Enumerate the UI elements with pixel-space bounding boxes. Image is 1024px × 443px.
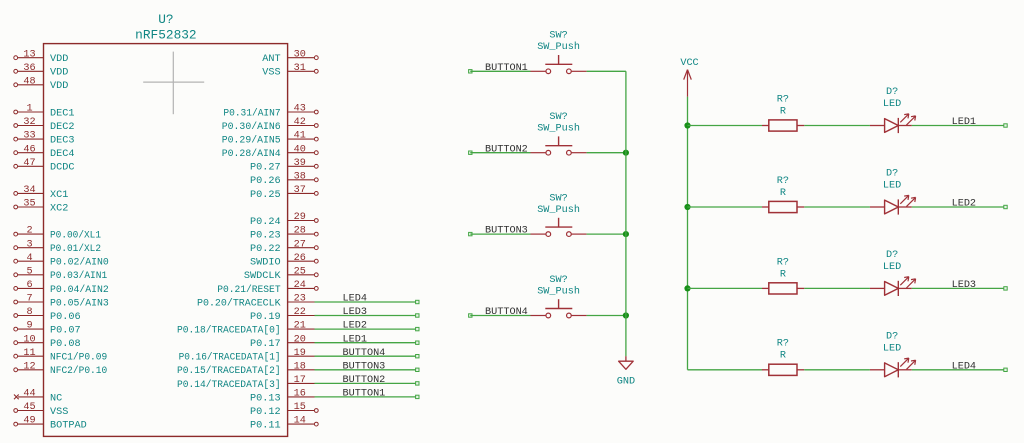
wire BUTTON2 left segment: [469, 151, 531, 154]
svg-text:R: R: [780, 106, 786, 117]
svg-text:19: 19: [294, 348, 306, 359]
svg-text:R?: R?: [777, 176, 789, 187]
svg-text:VDD: VDD: [50, 81, 68, 92]
power VCC: [680, 58, 698, 97]
svg-text:NC: NC: [50, 393, 62, 404]
svg-text:28: 28: [294, 226, 306, 237]
wire net BUTTON1 at pin 16: [315, 395, 420, 398]
svg-text:DEC1: DEC1: [50, 108, 74, 119]
svg-text:LED: LED: [883, 262, 901, 273]
wire net LED3: [912, 287, 1007, 290]
pin 45 VSS: [14, 402, 69, 418]
svg-text:38: 38: [294, 171, 306, 182]
pin 20 P0.17: [250, 334, 314, 350]
svg-text:BUTTON3: BUTTON3: [485, 226, 528, 237]
pin 17 P0.14/TRACEDATA[3]: [177, 375, 315, 391]
pin 6 P0.04/AIN2: [14, 280, 109, 296]
svg-text:R: R: [780, 188, 786, 199]
resistor R3: [762, 257, 804, 294]
LED D3: [870, 250, 916, 296]
svg-text:BUTTON4: BUTTON4: [343, 348, 386, 359]
svg-text:6: 6: [26, 280, 32, 291]
pin 34 XC1: [14, 185, 69, 201]
svg-text:1: 1: [26, 104, 32, 115]
pin 14 P0.11: [250, 416, 318, 432]
svg-text:LED: LED: [883, 181, 901, 192]
LED D1: [870, 87, 916, 133]
svg-text:2: 2: [26, 226, 32, 237]
wire net LED4: [912, 368, 1007, 371]
svg-text:25: 25: [294, 266, 306, 277]
wire net BUTTON4 at pin 19: [315, 355, 420, 358]
svg-text:P0.07: P0.07: [50, 326, 81, 337]
svg-text:BUTTON2: BUTTON2: [343, 375, 386, 386]
resistor R1: [762, 94, 804, 131]
svg-text:29: 29: [294, 212, 306, 223]
pin 39 P0.27: [250, 158, 318, 174]
svg-text:49: 49: [23, 416, 35, 427]
svg-text:VDD: VDD: [50, 68, 68, 79]
pin 12 NFC2/P0.10: [14, 361, 107, 377]
pin 38 P0.26: [250, 171, 318, 187]
svg-text:U?: U?: [158, 12, 173, 27]
pin 10 P0.08: [14, 334, 81, 350]
svg-text:P0.25: P0.25: [250, 190, 281, 201]
pin 44 NC: [14, 389, 62, 405]
svg-text:P0.17: P0.17: [250, 339, 281, 350]
svg-text:30: 30: [294, 49, 306, 60]
svg-text:P0.00/XL1: P0.00/XL1: [50, 230, 101, 242]
svg-text:45: 45: [23, 402, 35, 413]
pin 8 P0.06: [14, 307, 81, 323]
pin 47 DCDC: [14, 158, 75, 174]
svg-text:46: 46: [23, 144, 35, 155]
wire BUTTON2 to bus: [587, 152, 626, 154]
svg-text:3: 3: [26, 239, 32, 250]
svg-text:39: 39: [294, 158, 306, 169]
switch SW4 SW_Push: [531, 275, 587, 318]
wire net LED2 at pin 21: [315, 327, 420, 330]
wire VCC to R3: [688, 287, 763, 289]
pin 3 P0.01/XL2: [14, 239, 101, 255]
svg-text:22: 22: [294, 307, 306, 318]
pin 7 P0.05/AIN3: [14, 294, 109, 310]
svg-text:P0.05/AIN3: P0.05/AIN3: [50, 297, 109, 309]
svg-text:SWDCLK: SWDCLK: [244, 271, 282, 282]
svg-text:34: 34: [23, 185, 35, 196]
svg-text:4: 4: [26, 253, 32, 264]
svg-text:BUTTON2: BUTTON2: [485, 144, 528, 155]
svg-text:10: 10: [23, 334, 35, 345]
svg-text:BUTTON3: BUTTON3: [343, 361, 386, 372]
junction at bus row BUTTON2: [623, 150, 629, 156]
pin 48 VDD: [14, 76, 69, 92]
pin 11 NFC1/P0.09: [14, 348, 107, 364]
svg-text:LED: LED: [883, 99, 901, 110]
svg-text:P0.01/XL2: P0.01/XL2: [50, 243, 101, 255]
pin 16 P0.13: [250, 389, 314, 405]
svg-text:P0.11: P0.11: [250, 421, 281, 432]
svg-text:SW?: SW?: [549, 112, 567, 123]
svg-text:LED4: LED4: [343, 294, 367, 305]
pin 23 P0.20/TRACECLK: [197, 294, 315, 310]
svg-text:SW?: SW?: [549, 194, 567, 205]
pin 49 BOTPAD: [14, 416, 87, 432]
svg-text:37: 37: [294, 185, 306, 196]
svg-text:SW?: SW?: [549, 275, 567, 286]
wire BUTTON4 to bus: [587, 315, 626, 317]
svg-text:R: R: [780, 351, 786, 362]
svg-text:9: 9: [26, 321, 32, 332]
wire R3 to D3: [804, 287, 870, 289]
svg-text:SWDIO: SWDIO: [250, 258, 281, 269]
wire BUTTON4 left segment: [469, 314, 531, 317]
svg-text:36: 36: [23, 63, 35, 74]
junction at VCC bus row LED3: [684, 285, 690, 291]
svg-text:20: 20: [294, 334, 306, 345]
svg-text:LED: LED: [883, 344, 901, 355]
svg-text:LED1: LED1: [343, 334, 367, 345]
svg-text:BUTTON4: BUTTON4: [485, 307, 528, 318]
junction at VCC bus row LED2: [684, 204, 690, 210]
svg-text:P0.29/AIN5: P0.29/AIN5: [222, 135, 281, 147]
svg-text:P0.13: P0.13: [250, 393, 281, 404]
svg-text:R?: R?: [777, 94, 789, 105]
resistor R2: [762, 176, 804, 213]
pin 25 SWDCLK: [244, 266, 318, 282]
pin 42 P0.30/AIN6: [222, 117, 318, 133]
svg-text:48: 48: [23, 76, 35, 87]
svg-text:35: 35: [23, 199, 35, 210]
wire BUTTON3 left segment: [469, 232, 531, 235]
svg-text:P0.15/TRACEDATA[2]: P0.15/TRACEDATA[2]: [177, 365, 281, 377]
svg-text:LED3: LED3: [343, 307, 367, 318]
svg-text:P0.02/AIN0: P0.02/AIN0: [50, 257, 109, 269]
pin 29 P0.24: [250, 212, 318, 228]
svg-text:44: 44: [23, 389, 35, 400]
svg-text:P0.14/TRACEDATA[3]: P0.14/TRACEDATA[3]: [177, 379, 281, 391]
svg-text:15: 15: [294, 402, 306, 413]
svg-text:40: 40: [294, 144, 306, 155]
svg-text:DCDC: DCDC: [50, 163, 74, 174]
wire net LED4 at pin 23: [315, 300, 420, 303]
svg-text:5: 5: [26, 266, 32, 277]
svg-text:BOTPAD: BOTPAD: [50, 421, 87, 432]
wire net LED3 at pin 22: [315, 314, 420, 317]
pin 40 P0.28/AIN4: [222, 144, 318, 160]
svg-text:SW_Push: SW_Push: [537, 204, 580, 216]
wire R4 to D4: [804, 369, 870, 371]
svg-text:P0.31/AIN7: P0.31/AIN7: [223, 107, 280, 119]
wire button bus vertical: [625, 71, 627, 356]
anchor cross: [143, 52, 204, 115]
wire net LED2: [912, 205, 1007, 208]
pin 2 P0.00/XL1: [14, 226, 101, 242]
svg-text:nRF52832: nRF52832: [135, 28, 196, 43]
svg-text:SW_Push: SW_Push: [537, 123, 580, 135]
svg-text:LED1: LED1: [952, 117, 976, 128]
pin 41 P0.29/AIN5: [222, 131, 318, 147]
svg-text:21: 21: [294, 321, 306, 332]
wire VCC to R1: [688, 125, 763, 127]
svg-text:31: 31: [294, 63, 306, 74]
pin 32 DEC2: [14, 117, 75, 133]
svg-text:26: 26: [294, 253, 306, 264]
wire net LED1: [912, 124, 1007, 127]
ground GND: [617, 356, 635, 387]
pin 28 P0.23: [250, 226, 318, 242]
svg-text:DEC4: DEC4: [50, 149, 74, 160]
svg-text:27: 27: [294, 239, 306, 250]
junction at VCC bus row LED1: [684, 122, 690, 128]
pin 15 P0.12: [250, 402, 318, 418]
svg-text:BUTTON1: BUTTON1: [343, 389, 386, 400]
svg-text:R?: R?: [777, 257, 789, 268]
svg-text:16: 16: [294, 389, 306, 400]
svg-text:41: 41: [294, 131, 306, 142]
svg-text:DEC2: DEC2: [50, 122, 74, 133]
wire BUTTON1 left segment: [469, 70, 531, 73]
svg-text:VSS: VSS: [262, 68, 280, 79]
svg-text:24: 24: [294, 280, 306, 291]
svg-text:P0.12: P0.12: [250, 407, 281, 418]
LED D4: [870, 331, 916, 377]
svg-text:P0.08: P0.08: [50, 339, 81, 350]
svg-text:P0.23: P0.23: [250, 231, 281, 242]
svg-text:LED3: LED3: [952, 280, 976, 291]
svg-text:P0.26: P0.26: [250, 176, 281, 187]
switch SW1 SW_Push: [531, 31, 587, 74]
svg-text:17: 17: [294, 375, 306, 386]
svg-text:NFC1/P0.09: NFC1/P0.09: [50, 352, 107, 364]
svg-text:32: 32: [23, 117, 35, 128]
svg-text:P0.28/AIN4: P0.28/AIN4: [222, 148, 281, 160]
svg-text:18: 18: [294, 361, 306, 372]
wire VCC to R2: [688, 206, 763, 208]
pin 35 XC2: [14, 199, 69, 215]
pin 13 VDD: [14, 49, 69, 65]
svg-text:XC2: XC2: [50, 203, 68, 214]
svg-text:DEC3: DEC3: [50, 136, 74, 147]
svg-text:42: 42: [294, 117, 306, 128]
pin 46 DEC4: [14, 144, 75, 160]
svg-text:VSS: VSS: [50, 407, 68, 418]
pin 26 SWDIO: [250, 253, 318, 269]
svg-text:P0.16/TRACEDATA[1]: P0.16/TRACEDATA[1]: [179, 352, 281, 364]
svg-text:8: 8: [26, 307, 32, 318]
wire VCC bus vertical: [687, 97, 689, 370]
pin 43 P0.31/AIN7: [223, 104, 318, 120]
svg-text:D?: D?: [886, 169, 898, 180]
svg-text:R?: R?: [777, 339, 789, 350]
svg-text:P0.03/AIN1: P0.03/AIN1: [50, 270, 107, 282]
svg-text:D?: D?: [886, 87, 898, 98]
svg-text:ANT: ANT: [262, 54, 280, 65]
junction at bus row BUTTON4: [623, 312, 629, 318]
pin 19 P0.16/TRACEDATA[1]: [179, 348, 315, 364]
pin 36 VDD: [14, 63, 69, 79]
svg-text:47: 47: [23, 158, 35, 169]
svg-text:14: 14: [294, 416, 306, 427]
svg-text:D?: D?: [886, 250, 898, 261]
svg-text:P0.24: P0.24: [250, 217, 281, 228]
svg-text:7: 7: [26, 294, 32, 305]
IC U? nRF52832 body: [44, 44, 288, 437]
svg-text:SW_Push: SW_Push: [537, 41, 580, 53]
wire net LED1 at pin 20: [315, 341, 420, 344]
svg-text:P0.27: P0.27: [250, 163, 281, 174]
LED D2: [870, 169, 916, 215]
wire R2 to D2: [804, 206, 870, 208]
svg-text:P0.20/TRACECLK: P0.20/TRACECLK: [197, 297, 281, 309]
svg-text:43: 43: [294, 104, 306, 115]
svg-text:LED4: LED4: [952, 361, 976, 372]
svg-text:LED2: LED2: [952, 199, 976, 210]
svg-text:D?: D?: [886, 331, 898, 342]
svg-text:P0.18/TRACEDATA[0]: P0.18/TRACEDATA[0]: [177, 325, 281, 337]
svg-text:13: 13: [23, 49, 35, 60]
pin 24 P0.21/RESET: [217, 280, 318, 296]
svg-text:VDD: VDD: [50, 54, 68, 65]
svg-text:SW_Push: SW_Push: [537, 285, 580, 297]
svg-text:P0.22: P0.22: [250, 244, 281, 255]
wire BUTTON1 to bus: [587, 70, 626, 72]
svg-text:R: R: [780, 269, 786, 280]
pin 1 DEC1: [14, 104, 75, 120]
pin 5 P0.03/AIN1: [14, 266, 107, 282]
svg-text:SW?: SW?: [549, 31, 567, 42]
pin 31 VSS: [262, 63, 318, 79]
svg-text:P0.06: P0.06: [50, 312, 81, 323]
wire VCC to R4: [688, 369, 763, 371]
svg-text:12: 12: [23, 361, 35, 372]
svg-text:23: 23: [294, 294, 306, 305]
pin 27 P0.22: [250, 239, 318, 255]
svg-text:XC1: XC1: [50, 190, 68, 201]
pin 30 ANT: [262, 49, 318, 65]
wire net BUTTON2 at pin 17: [315, 382, 420, 385]
pin 33 DEC3: [14, 131, 75, 147]
wire net BUTTON3 at pin 18: [315, 368, 420, 371]
svg-text:BUTTON1: BUTTON1: [485, 63, 528, 74]
svg-text:11: 11: [23, 348, 35, 359]
pin 18 P0.15/TRACEDATA[2]: [177, 361, 315, 377]
svg-text:P0.19: P0.19: [250, 312, 281, 323]
junction at bus row BUTTON3: [623, 231, 629, 237]
pin 21 P0.18/TRACEDATA[0]: [177, 321, 315, 337]
wire R1 to D1: [804, 125, 870, 127]
svg-text:P0.21/RESET: P0.21/RESET: [217, 284, 280, 296]
pin 9 P0.07: [14, 321, 81, 337]
switch SW3 SW_Push: [531, 194, 587, 237]
svg-text:P0.04/AIN2: P0.04/AIN2: [50, 284, 109, 296]
svg-text:NFC2/P0.10: NFC2/P0.10: [50, 365, 107, 377]
wire BUTTON3 to bus: [587, 233, 626, 235]
pin 37 P0.25: [250, 185, 318, 201]
svg-text:LED2: LED2: [343, 321, 367, 332]
resistor R4: [762, 339, 804, 376]
switch SW2 SW_Push: [531, 112, 587, 155]
svg-text:33: 33: [23, 131, 35, 142]
pin 22 P0.19: [250, 307, 314, 323]
svg-text:P0.30/AIN6: P0.30/AIN6: [222, 121, 281, 133]
svg-text:VCC: VCC: [680, 58, 698, 69]
svg-text:GND: GND: [617, 377, 635, 388]
pin 4 P0.02/AIN0: [14, 253, 109, 269]
